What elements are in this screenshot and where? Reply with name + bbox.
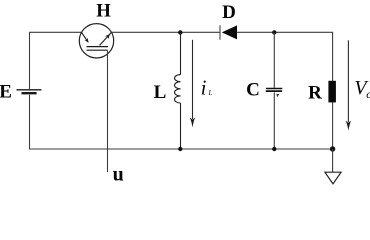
wire: top rail right segment (diode D anode to top-right corner) [237,31,333,33]
svg-text:u: u [113,164,124,185]
resistor R (filled rectangle) [328,81,336,103]
node: junction dot at capacitor bottom [272,147,276,151]
diode D triangle (pointing left) [222,25,237,39]
node: junction dot at ground corner [330,146,335,151]
wire: left rail upper (top rail down to battery) [29,32,31,89]
svg-text:H: H [96,1,111,22]
wire: ground lead [332,149,334,172]
transistor H upper bar [87,46,109,48]
battery E (voltage source) [17,90,42,93]
transistor H body circle [79,24,113,58]
svg-text:C: C [246,79,260,100]
node: junction dot at inductor top [178,30,182,34]
wire: capacitor C bottom lead [273,92,275,149]
capacitor C plates [266,89,283,92]
transistor H left diagonal (emitter, arrow into bar) [82,32,88,41]
svg-text:i: i [201,75,207,99]
svg-text:L: L [208,89,213,97]
node: junction dot at inductor bottom [178,147,182,151]
voltage arrow Vc [347,40,349,122]
transistor H (chopper switch) [79,24,113,58]
wire: top rail left segment (E+ to transistor H) [30,31,82,33]
svg-text:D: D [222,2,236,23]
svg-text:E: E [0,81,12,102]
svg-text:L: L [154,82,167,103]
inductor L [175,32,181,149]
ground symbol (open triangle) [325,172,341,184]
svg-text:c: c [366,87,370,101]
wire: bottom rail [30,148,333,150]
wire: top rail middle segment (H collector to diode D cathode) [111,31,220,33]
node: junction dot at capacitor top [272,30,276,34]
wire: base/control lead from H down past bottom rail [107,50,109,172]
wire: left rail lower (battery to bottom rail) [29,95,31,150]
wire: right rail (top-right corner down through R to bottom) [332,32,334,149]
transistor H lower bar (gate bar) [87,49,108,51]
capacitor polarity tick [276,94,279,97]
current arrow iL [192,40,194,119]
diode D cathode bar [219,25,221,39]
wire: capacitor C top lead [273,32,275,88]
transistor H right diagonal (collector, arrow outward) [100,32,112,45]
svg-text:R: R [308,82,322,103]
